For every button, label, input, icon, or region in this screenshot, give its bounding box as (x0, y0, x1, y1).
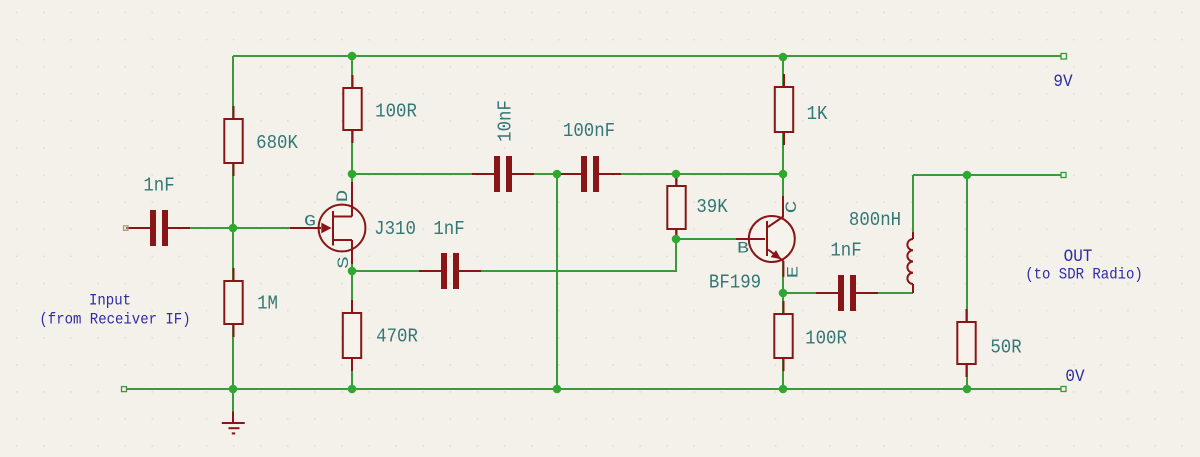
transistor J310 JFET (290, 182, 365, 264)
node 0V/470R (348, 385, 357, 394)
wire base row (676, 238, 764, 240)
svg-text:B: B (737, 240, 749, 258)
svg-text:G: G (304, 213, 316, 231)
svg-text:800nH: 800nH (849, 210, 901, 231)
svg-text:D: D (334, 190, 352, 202)
svg-text:100R: 100R (375, 102, 417, 123)
capacitor C2 10nF (472, 156, 534, 192)
svg-text:39K: 39K (696, 197, 727, 218)
wire emitter output row (783, 292, 913, 294)
wire inductor column lower (912, 284, 914, 293)
capacitor C3 100nF (559, 156, 621, 192)
node input/680K/1M (229, 224, 238, 233)
svg-text:50R: 50R (990, 338, 1021, 359)
resistor 39K (667, 175, 685, 239)
svg-text:(to SDR Radio): (to SDR Radio) (1025, 267, 1143, 284)
svg-text:1K: 1K (807, 104, 828, 125)
svg-text:1M: 1M (257, 294, 278, 315)
terminal 0V left open square (122, 387, 127, 392)
svg-text:BF199: BF199 (709, 273, 761, 294)
wire 1K/collector column (782, 57, 784, 217)
terminal 9V right open square (1061, 54, 1067, 60)
capacitor C1 1nF input (128, 210, 190, 246)
svg-text:100R: 100R (805, 329, 847, 350)
wire inductor column upper (912, 175, 914, 239)
svg-text:J310: J310 (374, 219, 416, 240)
wire 39K column (675, 174, 677, 239)
node 9V/100R (348, 52, 357, 61)
svg-text:680K: 680K (256, 133, 298, 154)
terminal input open square (124, 226, 129, 231)
transistor BF199 NPN (736, 196, 795, 277)
resistor 1M (224, 268, 242, 337)
svg-text:C: C (783, 201, 801, 213)
terminal OUT right open square (1061, 173, 1066, 178)
capacitor C4 1nF source bypass (419, 253, 481, 289)
terminal 0V right open square (1061, 387, 1066, 392)
node 0V/ground (229, 385, 238, 394)
svg-text:100nF: 100nF (563, 121, 615, 142)
svg-text:9V: 9V (1053, 72, 1073, 92)
svg-text:1nF: 1nF (143, 176, 174, 197)
capacitor C5 1nF output (816, 275, 878, 311)
node 0V/100R (779, 385, 788, 394)
wire output row (913, 174, 1061, 176)
resistor 50R (957, 309, 975, 377)
node base (672, 235, 681, 244)
resistor 470R (343, 300, 361, 371)
svg-text:10nF: 10nF (496, 100, 517, 142)
resistor 680K (224, 106, 242, 176)
resistor 100R drain (343, 75, 361, 143)
svg-text:1nF: 1nF (830, 241, 861, 262)
svg-text:(from Receiver IF): (from Receiver IF) (39, 312, 190, 329)
node interstage caps (553, 170, 562, 179)
node 39K top (672, 170, 681, 179)
node 0V/mid (553, 385, 562, 394)
wire 50R column (966, 175, 968, 389)
wire 9V rail (233, 55, 1061, 57)
node drain (348, 170, 357, 179)
wire source/470R column (351, 241, 353, 389)
svg-text:1nF: 1nF (433, 219, 464, 240)
wire 0V bottom rail (126, 388, 1061, 390)
node 9V/1K (779, 53, 788, 62)
svg-text:S: S (335, 256, 353, 268)
resistor 100R emitter (774, 301, 792, 371)
wire drain row (352, 173, 783, 175)
ground (222, 389, 245, 433)
node collector (779, 170, 788, 179)
wire 100R column upper (351, 56, 353, 213)
wire emitter column (782, 261, 784, 389)
wire mid vertical to 0V (556, 174, 558, 389)
node emitter (779, 289, 788, 298)
inductor 800nH (907, 232, 913, 293)
wire input row (126, 227, 300, 229)
svg-text:E: E (785, 266, 803, 278)
node output (963, 171, 972, 180)
node source (348, 267, 357, 276)
svg-text:470R: 470R (376, 327, 418, 348)
wire source bypass run (352, 239, 676, 271)
resistor 1K (775, 74, 793, 145)
wire 680K/1M column (232, 56, 234, 389)
svg-text:OUT: OUT (1064, 247, 1093, 267)
svg-text:0V: 0V (1065, 367, 1085, 387)
node 0V/50R (963, 385, 972, 394)
svg-text:Input: Input (89, 293, 131, 310)
